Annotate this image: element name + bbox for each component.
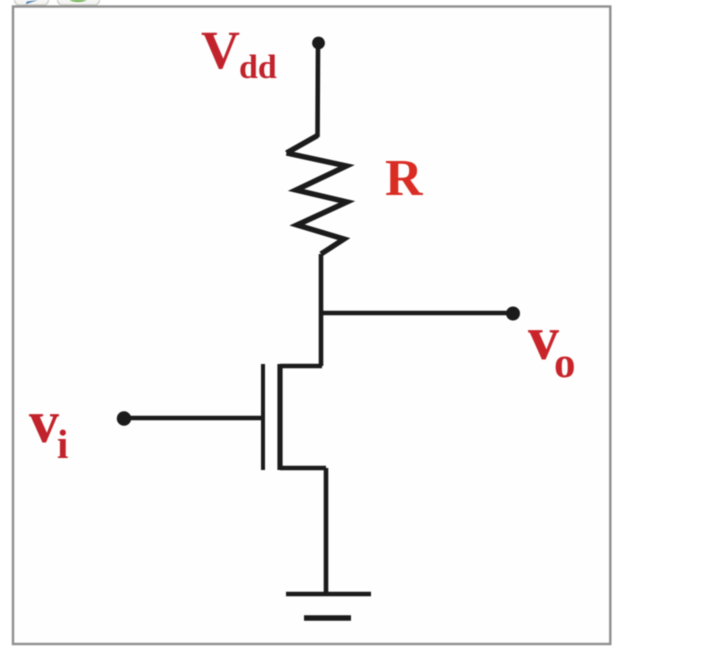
node vo terminal dot <box>506 307 520 321</box>
svg-text:o: o <box>554 340 576 387</box>
label Vdd <box>201 20 277 86</box>
transistor M1 channel bar <box>277 364 282 470</box>
toolbar button 1 <box>15 0 49 5</box>
label vo <box>528 305 576 387</box>
wire source to ground <box>324 468 329 594</box>
transistor M1 drain lead <box>280 364 322 369</box>
transistor M1 source lead <box>280 466 326 471</box>
svg-text:dd: dd <box>239 49 277 86</box>
svg-text:V: V <box>201 20 240 80</box>
toolbar button 2 <box>58 0 100 5</box>
ground bar 1 <box>286 592 371 597</box>
svg-text:v: v <box>29 389 59 455</box>
label vi <box>29 389 68 467</box>
wire gate to vi terminal <box>126 416 261 421</box>
resistor R <box>287 153 348 254</box>
wire drain node to vo terminal <box>321 311 511 316</box>
transistor M1 gate bar <box>261 364 265 470</box>
node Vdd terminal dot <box>312 37 325 50</box>
wire Vdd to resistor top <box>315 45 320 137</box>
svg-text:i: i <box>57 421 68 467</box>
svg-text:R: R <box>385 150 424 207</box>
node vi terminal dot <box>117 411 131 425</box>
wire resistor bottom to drain <box>319 254 324 366</box>
ground bar 2 <box>304 615 351 621</box>
